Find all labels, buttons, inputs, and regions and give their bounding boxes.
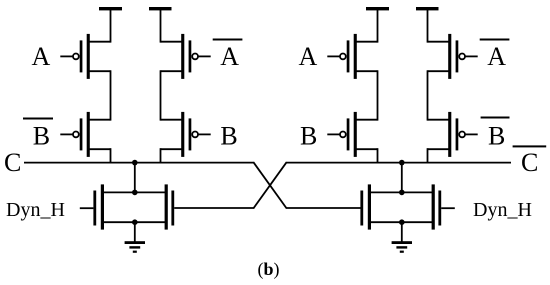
svg-text:C: C bbox=[521, 148, 538, 177]
svg-text:Dyn_H: Dyn_H bbox=[473, 199, 532, 221]
svg-text:A: A bbox=[32, 42, 51, 71]
svg-text:B: B bbox=[220, 122, 237, 151]
svg-text:B: B bbox=[488, 122, 505, 151]
svg-text:A: A bbox=[487, 42, 506, 71]
svg-text:B: B bbox=[33, 122, 50, 151]
svg-text:C: C bbox=[4, 148, 21, 177]
svg-text:(b): (b) bbox=[257, 259, 279, 280]
svg-text:B: B bbox=[300, 122, 317, 151]
svg-text:A: A bbox=[220, 42, 239, 71]
svg-text:A: A bbox=[299, 42, 318, 71]
svg-text:Dyn_H: Dyn_H bbox=[6, 199, 65, 221]
